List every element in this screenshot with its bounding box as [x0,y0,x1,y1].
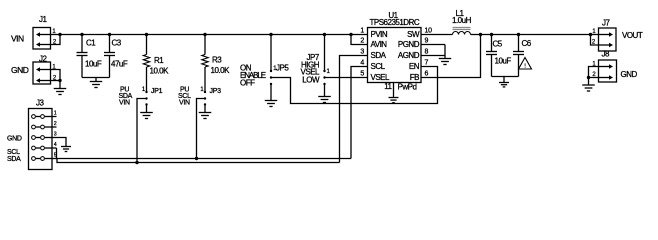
svg-text:2: 2 [54,121,57,127]
svg-text:VOUT: VOUT [622,31,643,40]
svg-text:SCL: SCL [7,149,20,156]
svg-text:VIN: VIN [179,100,190,107]
svg-text:J2: J2 [39,55,48,64]
svg-text:PGND: PGND [398,40,420,49]
svg-text:10.0K: 10.0K [150,67,170,76]
svg-text:J8: J8 [602,50,611,59]
svg-text:SDA: SDA [371,51,387,60]
svg-text:5: 5 [54,153,57,159]
svg-text:9: 9 [425,38,429,45]
svg-text:J1: J1 [39,15,48,24]
svg-text:GND: GND [7,136,22,143]
svg-text:1.0uH: 1.0uH [452,16,472,25]
svg-text:FB: FB [410,73,419,82]
svg-text:C6: C6 [522,39,532,48]
svg-text:EN: EN [409,62,420,71]
svg-text:OFF: OFF [240,79,255,88]
svg-text:AVIN: AVIN [371,40,388,49]
svg-text:JP1: JP1 [151,88,163,95]
svg-text:4: 4 [360,60,364,67]
svg-text:VSEL: VSEL [371,73,391,82]
svg-text:R3: R3 [212,56,222,65]
svg-text:AGND: AGND [398,51,420,60]
svg-text:4: 4 [54,142,57,148]
svg-text:R1: R1 [154,56,164,65]
svg-text:SDA: SDA [7,156,21,163]
svg-text:SCL: SCL [371,62,386,71]
svg-text:10: 10 [425,28,433,35]
svg-text:7: 7 [425,60,429,67]
svg-text:C3: C3 [112,39,122,48]
svg-text:C5: C5 [493,40,503,49]
svg-text:JP3: JP3 [210,88,222,95]
svg-text:GND: GND [621,70,638,79]
svg-text:TPS62351DRC: TPS62351DRC [370,18,420,27]
svg-text:1: 1 [54,111,57,117]
svg-text:10uF: 10uF [495,57,512,66]
svg-text:LOW: LOW [302,76,320,85]
svg-text:3: 3 [54,132,57,138]
svg-text:PVIN: PVIN [371,30,388,39]
svg-text:VIN: VIN [119,100,130,107]
svg-text:VIN: VIN [11,34,24,44]
svg-text:3: 3 [360,49,364,56]
svg-text:47uF: 47uF [111,60,128,69]
svg-text:PwPd: PwPd [398,83,417,92]
svg-text:C1: C1 [86,39,96,48]
svg-text:GND: GND [11,65,29,75]
svg-text:5: 5 [360,71,364,78]
svg-text:JP5: JP5 [276,64,289,73]
svg-text:1: 1 [360,28,364,35]
svg-text:10uF: 10uF [85,60,102,69]
svg-text:11: 11 [384,82,392,91]
svg-text:J3: J3 [36,99,45,108]
svg-text:2: 2 [360,38,364,45]
svg-text:SW: SW [407,30,420,39]
svg-text:8: 8 [425,49,429,56]
svg-text:J7: J7 [602,19,611,28]
svg-text:10.0K: 10.0K [211,66,231,75]
svg-text:6: 6 [425,71,429,78]
